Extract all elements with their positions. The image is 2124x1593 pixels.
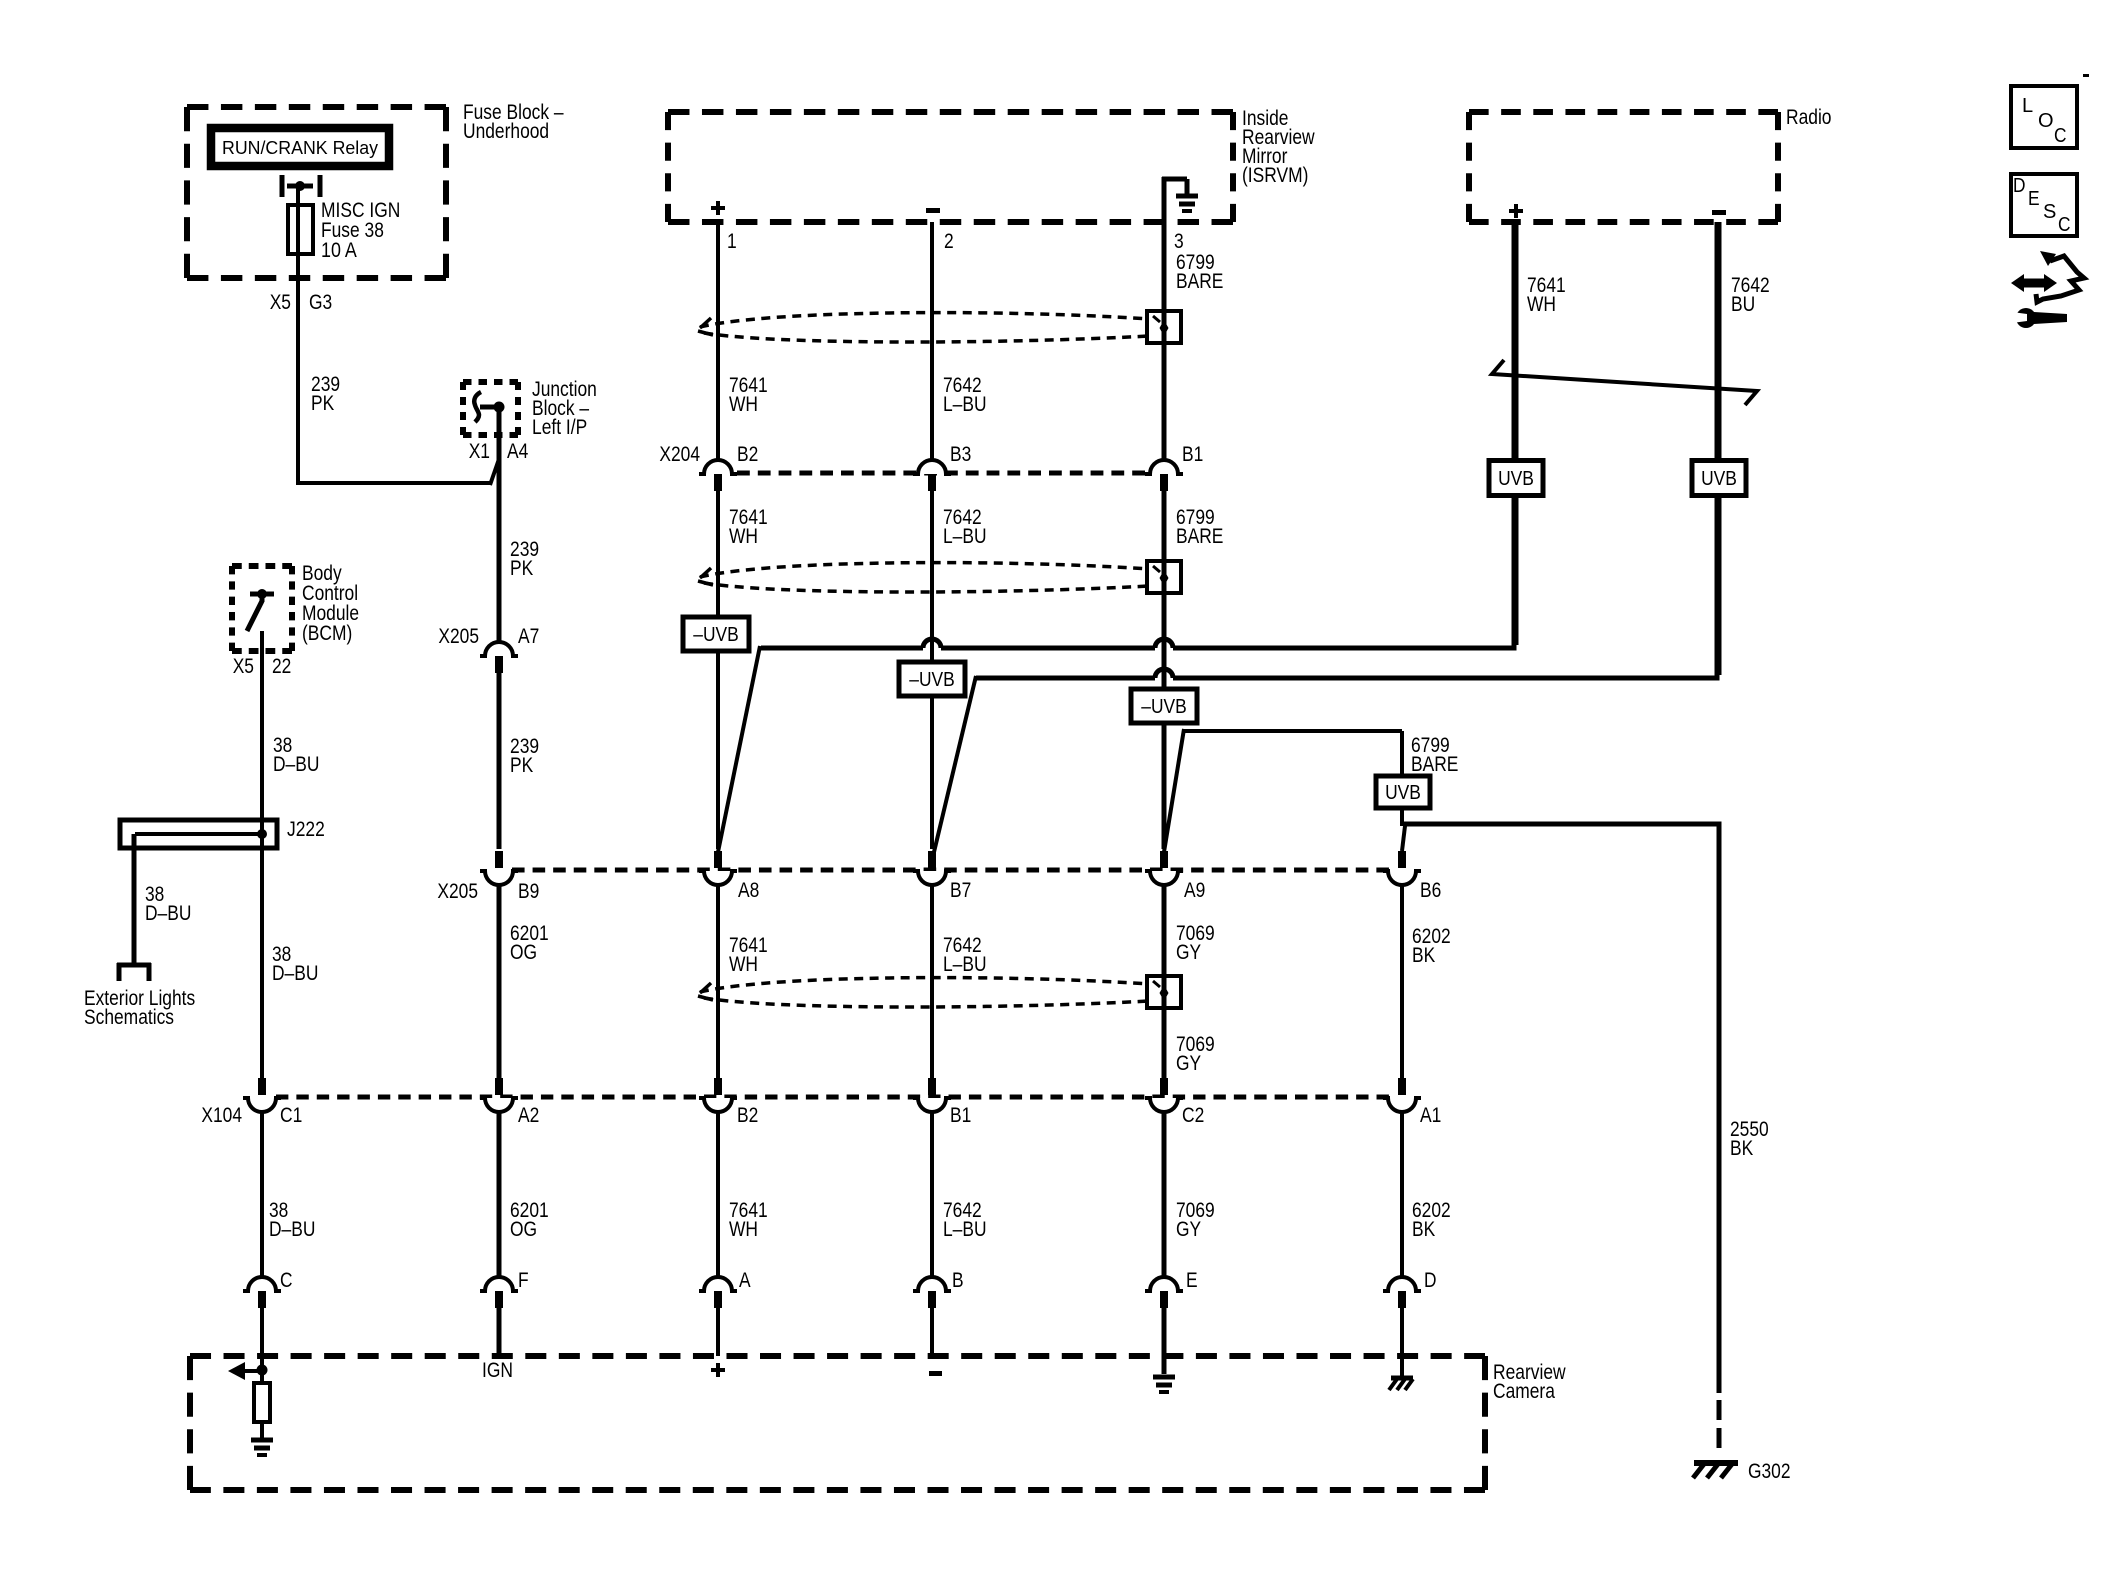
- svg-text:PK: PK: [510, 754, 533, 777]
- connector X204 B3: [913, 460, 951, 491]
- wire label 38 D-BU (branch): [145, 883, 191, 925]
- navigation icon arrows and wrench: [2011, 251, 2084, 328]
- svg-text:X204: X204: [659, 443, 700, 466]
- wire 7641 WH: radio + down to bus: [1514, 222, 1519, 645]
- svg-text:Schematics: Schematics: [84, 1006, 174, 1029]
- bus wire -UVB from radio + (7641 WH): [718, 222, 1514, 852]
- wire: camera D lead: [1400, 1308, 1404, 1376]
- wire: col D below -UVB box to X205 B7: [930, 696, 934, 849]
- svg-text:WH: WH: [729, 1218, 758, 1241]
- wire 38 D-BU: J222 left branch to exterior lights: [117, 834, 151, 981]
- svg-text:D: D: [2013, 175, 2026, 197]
- stray mark: [2083, 74, 2089, 77]
- wire label 6202 BK (bottom): [1412, 1199, 1451, 1241]
- svg-text:G3: G3: [309, 291, 332, 314]
- connector X205 B7: [913, 851, 951, 885]
- wire 38 D-BU: BCM to J222: [260, 631, 264, 820]
- wire label 7641 WH (radio): [1527, 274, 1566, 316]
- wire 6201 OG: X104 A2 to camera F: [497, 1111, 502, 1277]
- crossing annotation arrows between radio wires: [1492, 360, 1757, 405]
- connector camera pin B: [913, 1277, 951, 1308]
- svg-text:–UVB: –UVB: [693, 624, 738, 646]
- wire label 7641 WH (top): [729, 374, 768, 416]
- svg-text:C: C: [2054, 125, 2067, 147]
- svg-text:F: F: [518, 1269, 529, 1292]
- svg-text:X5: X5: [233, 655, 254, 678]
- wire 2550 BK: splice to G302: [1404, 824, 1719, 1455]
- svg-text:X205: X205: [438, 625, 479, 648]
- splice J222: [120, 820, 277, 848]
- wire label 2550 BK: [1730, 1118, 1769, 1160]
- wire 38 D-BU: X104 C1 to camera C: [260, 1111, 264, 1277]
- wire label 7641 WH (mid): [729, 506, 768, 548]
- svg-text:A: A: [739, 1269, 751, 1292]
- net label box UVB (radio 7642): [1692, 461, 1746, 496]
- wire 7642 L-BU: X204 B3 to -UVB: [930, 491, 934, 663]
- svg-text:22: 22: [272, 655, 291, 678]
- pin labels X104 C1: [201, 1104, 302, 1127]
- wire: camera E lead: [1162, 1308, 1167, 1374]
- svg-text:UVB: UVB: [1701, 468, 1737, 490]
- svg-text:J222: J222: [287, 818, 325, 841]
- svg-text:G302: G302: [1748, 1460, 1791, 1483]
- svg-text:L–BU: L–BU: [943, 953, 987, 976]
- wire 6799 BARE: splice to col F: [1164, 729, 1402, 852]
- wire label 6201 OG (upper): [510, 922, 549, 964]
- svg-text:GY: GY: [1176, 941, 1201, 964]
- wire label 38 D-BU (to X104): [272, 943, 318, 985]
- svg-text:S: S: [2043, 201, 2056, 223]
- svg-text:D–BU: D–BU: [272, 962, 318, 985]
- pin labels X205 B9: [437, 880, 539, 903]
- component box: Inside Rearview Mirror ISRVM (dashed): [668, 109, 1233, 115]
- svg-text:A2: A2: [518, 1104, 539, 1127]
- label: Exterior Lights Schematics: [84, 987, 195, 1029]
- svg-text:A9: A9: [1184, 879, 1205, 902]
- svg-text:BK: BK: [1730, 1137, 1753, 1160]
- wire 6799 BARE: X204 B1 down to -UVB: [1162, 491, 1167, 690]
- shield ellipse lower: [698, 976, 1181, 1008]
- net label box -UVB (7641 WH): [683, 617, 749, 651]
- svg-text:C1: C1: [280, 1104, 302, 1127]
- wire 239 PK: junction block down to X205 A7: [497, 407, 502, 643]
- svg-text:3: 3: [1174, 230, 1184, 253]
- svg-text:WH: WH: [729, 393, 758, 416]
- net label box UVB (col F): [1376, 776, 1430, 851]
- relay K: RUN/CRANK Relay box: [211, 128, 389, 166]
- svg-text:UVB: UVB: [1385, 782, 1421, 804]
- Radio plus pin: [1509, 204, 1523, 218]
- svg-text:B6: B6: [1420, 879, 1441, 902]
- svg-text:Underhood: Underhood: [463, 120, 549, 143]
- svg-text:X1: X1: [469, 440, 490, 463]
- connector camera pin F: [480, 1277, 518, 1308]
- svg-text:B3: B3: [950, 443, 971, 466]
- connector row X204 dashed line: [737, 471, 1145, 476]
- connector X205 B9: [480, 851, 518, 885]
- svg-text:Left I/P: Left I/P: [532, 416, 587, 439]
- svg-text:OG: OG: [510, 941, 537, 964]
- wire 6202 BK: X205 B6 to X104 A1: [1400, 884, 1404, 1078]
- svg-text:D–BU: D–BU: [145, 902, 191, 925]
- svg-text:B1: B1: [950, 1104, 971, 1127]
- connector row X104 dashed line: [276, 1095, 1389, 1100]
- wire label 239 PK (fuse output): [311, 373, 340, 415]
- wire label 7642 L-BU (top): [943, 374, 987, 416]
- component box: Junction Block - Left I/P (dashed): [463, 379, 518, 385]
- svg-text:L–BU: L–BU: [943, 1218, 987, 1241]
- connector X104 B2: [699, 1078, 737, 1112]
- svg-text:OG: OG: [510, 1218, 537, 1241]
- svg-text:1: 1: [727, 230, 737, 253]
- net label box UVB (radio 7641): [1489, 461, 1543, 496]
- wire: col E below -UVB box to X205 A9: [1162, 723, 1167, 849]
- svg-text:PK: PK: [311, 392, 334, 415]
- svg-text:E: E: [2028, 188, 2040, 210]
- svg-text:B7: B7: [950, 879, 971, 902]
- wire 6201 OG: X205 B9 to X104 A2: [497, 884, 502, 1078]
- svg-text:A8: A8: [738, 879, 759, 902]
- pin label X5 22: [233, 655, 292, 678]
- wire label 6201 OG (bottom): [510, 1199, 549, 1241]
- svg-text:B2: B2: [737, 1104, 758, 1127]
- svg-text:X104: X104: [201, 1104, 242, 1127]
- wire label 7642 L-BU (mid): [943, 506, 987, 548]
- wire 7642 L-BU: X104 B1 to camera B: [930, 1111, 934, 1277]
- wire label 239 PK (junction block): [510, 538, 539, 580]
- svg-text:WH: WH: [729, 953, 758, 976]
- svg-text:L: L: [2022, 95, 2033, 117]
- connector X104 B1: [913, 1078, 951, 1112]
- connector X104 A2: [480, 1078, 518, 1112]
- svg-text:O: O: [2038, 110, 2054, 132]
- wire: fuse output through X5/G3: [296, 254, 300, 483]
- wire: camera A lead: [716, 1308, 720, 1356]
- svg-text:Radio: Radio: [1786, 106, 1832, 129]
- svg-text:PK: PK: [510, 557, 533, 580]
- label: Inside Rearview Mirror (ISRVM): [1242, 107, 1315, 187]
- svg-text:D: D: [1424, 1269, 1437, 1292]
- component box: Fuse Block - Underhood (dashed): [187, 104, 446, 110]
- svg-text:GY: GY: [1176, 1218, 1201, 1241]
- pin labels X204 B2: [659, 443, 758, 466]
- hyperlink icon DESC: [2011, 174, 2077, 236]
- svg-text:BU: BU: [1731, 293, 1755, 316]
- svg-text:2: 2: [944, 230, 954, 253]
- wire label 7642 L-BU (bottom): [943, 1199, 987, 1241]
- wire 6202 BK: X104 A1 to camera D: [1400, 1111, 1404, 1277]
- component box: Radio (dashed): [1469, 109, 1778, 115]
- camera internal resistor: [254, 1370, 270, 1439]
- camera pin label + (A): [711, 1363, 725, 1377]
- label: Body Control Module (BCM): [302, 562, 359, 645]
- connector X205 A8: [699, 851, 737, 885]
- wire 7641 WH: X205 A8 to X104 B2: [716, 884, 720, 1078]
- svg-text:(ISRVM): (ISRVM): [1242, 164, 1308, 187]
- svg-text:IGN: IGN: [482, 1359, 513, 1382]
- wire label 7069 GY (upper): [1176, 922, 1215, 964]
- svg-text:RUN/CRANK Relay: RUN/CRANK Relay: [222, 138, 378, 158]
- svg-text:A4: A4: [507, 440, 529, 463]
- wire label 239 PK (below A7): [510, 735, 539, 777]
- camera pin label - (B): [929, 1371, 942, 1376]
- wire label 7641 WH (lower): [729, 934, 768, 976]
- connector camera pin D: [1383, 1277, 1421, 1308]
- connector X204 B2: [699, 460, 737, 491]
- wire: camera F lead: [497, 1308, 502, 1356]
- svg-text:L–BU: L–BU: [943, 525, 987, 548]
- svg-text:–UVB: –UVB: [909, 669, 954, 691]
- svg-text:10 A: 10 A: [321, 239, 357, 262]
- svg-text:C2: C2: [1182, 1104, 1204, 1127]
- svg-text:–UVB: –UVB: [1141, 696, 1186, 718]
- connector camera pin C: [243, 1277, 281, 1308]
- component box: Body Control Module BCM (dashed): [232, 563, 292, 569]
- wire label 7069 GY (bottom): [1176, 1199, 1215, 1241]
- wire label 6799 BARE (mid): [1176, 506, 1223, 548]
- wire label 7069 GY (below ellipse): [1176, 1033, 1215, 1075]
- svg-text:D–BU: D–BU: [273, 753, 319, 776]
- svg-text:BARE: BARE: [1411, 753, 1458, 776]
- wire 7642 BU: radio - down to bus: [1717, 222, 1722, 675]
- wire label 38 D-BU (bottom): [269, 1199, 315, 1241]
- svg-text:BK: BK: [1412, 1218, 1435, 1241]
- pin labels X205 A7: [438, 625, 539, 648]
- label: MISC IGN Fuse 38 10 A: [321, 199, 400, 262]
- label: Rearview Camera: [1493, 1361, 1566, 1403]
- connector X205 B6: [1383, 851, 1421, 885]
- svg-text:WH: WH: [729, 525, 758, 548]
- wire: col C below -UVB box to X205 A8: [716, 650, 720, 849]
- wire label 7641 WH (bottom): [729, 1199, 768, 1241]
- connector X104 C1: [243, 1078, 281, 1112]
- connector row X205 dashed line: [512, 868, 1389, 873]
- relay contact terminal: [282, 175, 320, 197]
- connector X104 A1: [1383, 1078, 1421, 1112]
- bus wire -UVB from radio - (7642 BU): [934, 222, 1717, 852]
- connector X205 A9: [1145, 851, 1183, 885]
- wire label 6799 BARE (top): [1176, 251, 1223, 293]
- svg-text:WH: WH: [1527, 293, 1556, 316]
- wire label 6202 BK (upper): [1412, 925, 1451, 967]
- svg-text:X205: X205: [437, 880, 478, 903]
- net label box -UVB (7642 L-BU): [899, 662, 965, 696]
- svg-text:B9: B9: [518, 880, 539, 903]
- svg-text:B2: B2: [737, 443, 758, 466]
- wire: relay to fuse: [296, 186, 300, 205]
- camera pin D chassis ground: [1389, 1378, 1413, 1390]
- wire: camera C lead: [260, 1308, 264, 1370]
- svg-text:GY: GY: [1176, 1052, 1201, 1075]
- wire 7641 WH: X104 B2 to camera A: [716, 1111, 720, 1277]
- connector camera pin E: [1145, 1277, 1183, 1308]
- label: Junction Block - Left I/P: [532, 378, 597, 439]
- Radio minus pin: [1712, 210, 1726, 215]
- ground G302 chassis symbol: [1693, 1463, 1738, 1478]
- wire 7069 GY: X104 C2 to camera E: [1162, 1111, 1167, 1277]
- hyperlink icon LOC: [2011, 86, 2077, 148]
- connector X205 A7: [480, 642, 518, 673]
- BCM internal switch: [247, 589, 274, 631]
- svg-text:A7: A7: [518, 625, 539, 648]
- svg-text:E: E: [1186, 1269, 1198, 1292]
- component box: Rearview Camera (dashed): [190, 1353, 1485, 1359]
- camera pin E internal ground: [1153, 1375, 1175, 1380]
- wire 239 PK: fuse block to junction block: [296, 459, 499, 485]
- svg-text:BK: BK: [1412, 944, 1435, 967]
- ISRVM internal ground: [1162, 177, 1198, 222]
- pin label X5 G3: [270, 291, 333, 314]
- wire 6799 BARE: ISRVM pin 3 to X204 B1: [1162, 222, 1167, 461]
- svg-text:A1: A1: [1420, 1104, 1441, 1127]
- ISRVM pin 1 plus sign: [711, 201, 725, 215]
- svg-text:B: B: [952, 1269, 964, 1292]
- connector X104 C2: [1145, 1078, 1183, 1112]
- wire label 7642 BU (radio): [1731, 274, 1770, 316]
- camera internal ground: [251, 1438, 273, 1443]
- shield ellipse mid: [698, 561, 1181, 593]
- wire label 6799 BARE (to UVB): [1411, 734, 1458, 776]
- wire 7642 L-BU: ISRVM pin 2 to X204 B3: [930, 222, 934, 461]
- camera internal node and arrow: [228, 1362, 268, 1380]
- wire label 38 D-BU (BCM out): [273, 734, 319, 776]
- svg-text:X5: X5: [270, 291, 291, 314]
- label: Fuse Block - Underhood: [463, 101, 564, 143]
- pin label X1 A4: [469, 440, 529, 463]
- wire label 7642 L-BU (lower): [943, 934, 987, 976]
- wire 7641 WH: X204 B2 to -UVB / X205 A8: [716, 491, 720, 617]
- svg-text:(BCM): (BCM): [302, 622, 352, 645]
- svg-text:L–BU: L–BU: [943, 393, 987, 416]
- svg-text:UVB: UVB: [1498, 468, 1534, 490]
- net label box -UVB (6799 BARE): [1131, 689, 1197, 723]
- junction block internal wire and node: [474, 392, 504, 422]
- svg-text:C: C: [2058, 214, 2071, 236]
- wire 7642 L-BU: X205 B7 to X104 B1: [930, 884, 934, 1078]
- shield ellipse upper: [698, 311, 1181, 343]
- fuse F38: MISC IGN Fuse 38 10A: [288, 205, 313, 254]
- connector X204 B1: [1145, 460, 1183, 491]
- wire 7069 GY: X205 A9 to X104 C2: [1162, 884, 1167, 1078]
- svg-text:C: C: [280, 1269, 293, 1292]
- svg-text:B1: B1: [1182, 443, 1203, 466]
- svg-text:BARE: BARE: [1176, 525, 1223, 548]
- ISRVM pin 2 minus sign: [926, 208, 940, 213]
- wire 239 PK: X205 A7 to X205 B9: [497, 673, 502, 849]
- svg-text:BARE: BARE: [1176, 270, 1223, 293]
- wire: camera B lead: [930, 1308, 934, 1356]
- svg-text:D–BU: D–BU: [269, 1218, 315, 1241]
- svg-text:Camera: Camera: [1493, 1380, 1555, 1403]
- connector camera pin A: [699, 1277, 737, 1308]
- wire 7641 WH: ISRVM pin 1 to X204 B2: [716, 222, 720, 461]
- wire 38 D-BU: J222 to X104 C1: [260, 846, 264, 1078]
